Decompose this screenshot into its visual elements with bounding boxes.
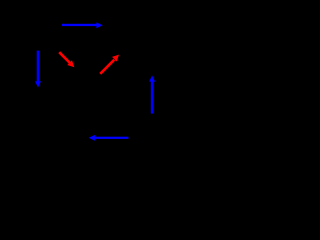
arrowhead diagonal 1 [67,60,74,67]
arrow diagonal 1 (red, points down-right) [59,52,70,63]
arrow diagonal 2 (red, points up-right) [100,60,114,74]
arrow right (blue, points up) [149,75,155,113]
arrowhead diagonal 2 [112,55,119,62]
diagram: square scheme with transfer arrows [0,0,218,227]
arrow bottom (blue, points left) [89,135,129,141]
arrow top (blue, points right) [62,22,103,28]
arrow left (blue, points down) [35,51,41,88]
